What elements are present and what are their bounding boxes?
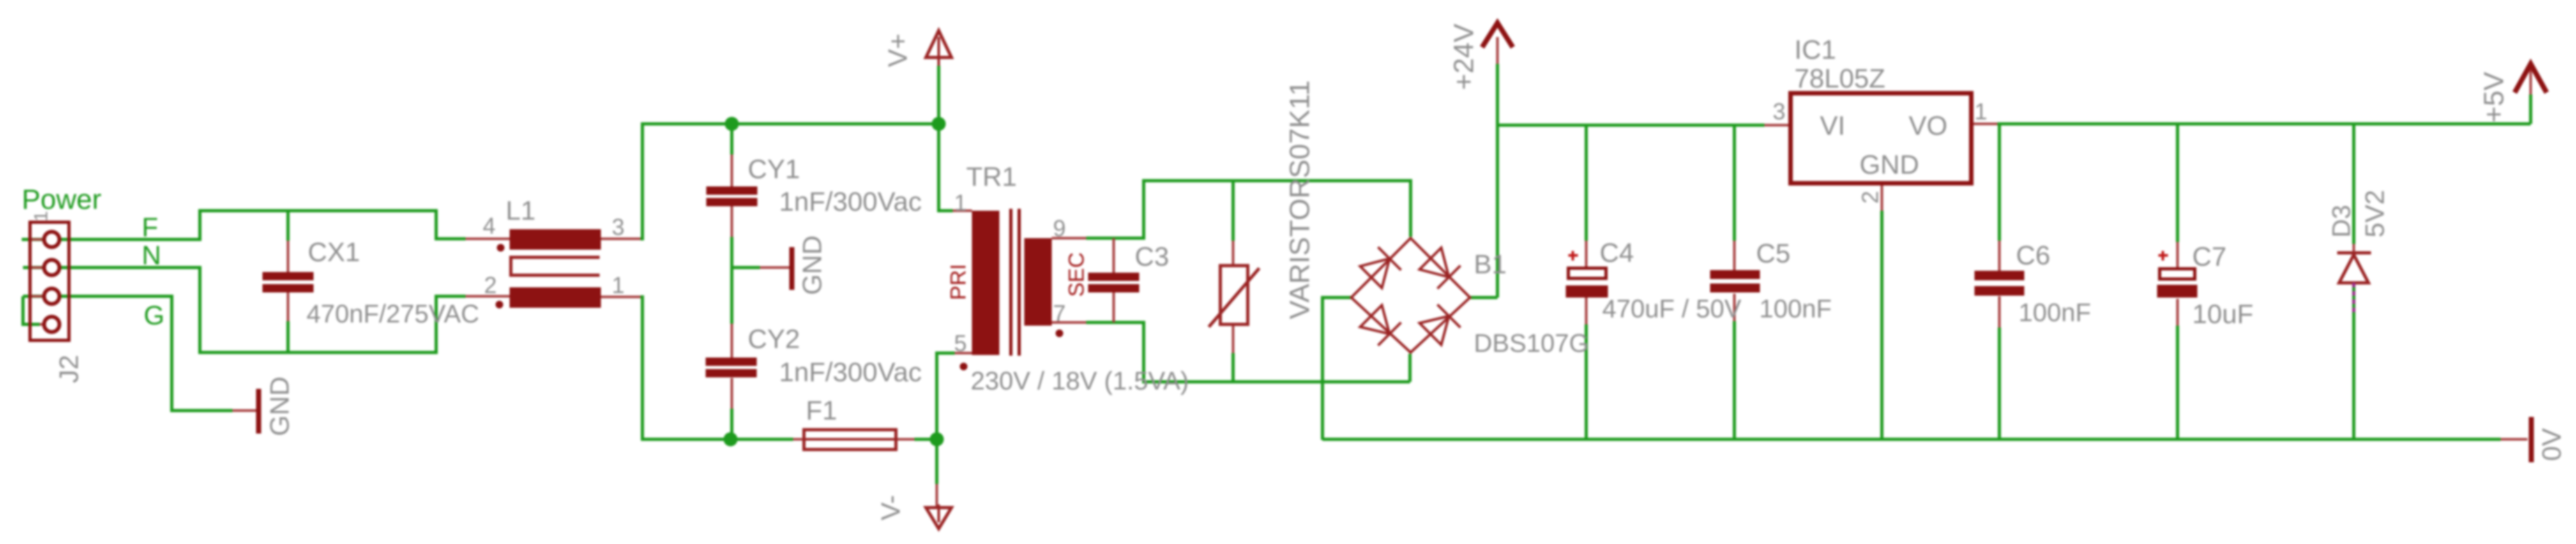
svg-text:CX1: CX1	[308, 237, 360, 267]
svg-text:F: F	[142, 212, 158, 242]
svg-text:CY1: CY1	[748, 154, 800, 184]
svg-text:3: 3	[1773, 98, 1785, 125]
svg-text:C6: C6	[2016, 240, 2050, 270]
svg-text:C7: C7	[2192, 241, 2227, 271]
svg-text:V+: V+	[883, 33, 913, 67]
svg-text:1: 1	[954, 190, 967, 216]
svg-text:F1: F1	[806, 395, 837, 425]
svg-text:0V: 0V	[2536, 428, 2566, 461]
svg-text:5: 5	[954, 330, 967, 356]
svg-text:1nF/300Vac: 1nF/300Vac	[779, 186, 921, 216]
svg-text:N: N	[142, 240, 161, 270]
svg-text:470uF / 50V: 470uF / 50V	[1602, 295, 1741, 323]
svg-text:GND: GND	[264, 377, 294, 436]
svg-text:10uF: 10uF	[2192, 299, 2254, 329]
svg-text:C4: C4	[1600, 238, 1634, 268]
svg-text:CY2: CY2	[748, 324, 800, 354]
svg-text:1: 1	[31, 211, 52, 222]
svg-text:1: 1	[1974, 98, 1987, 125]
svg-text:DBS107G: DBS107G	[1474, 329, 1589, 358]
svg-text:VI: VI	[1820, 110, 1845, 140]
svg-text:5V2: 5V2	[2360, 190, 2390, 238]
svg-text:100nF: 100nF	[2019, 299, 2091, 327]
svg-text:78L05Z: 78L05Z	[1794, 63, 1885, 93]
svg-text:C3: C3	[1135, 241, 1169, 271]
svg-text:GND: GND	[797, 236, 827, 295]
svg-text:VARISTORS07K11: VARISTORS07K11	[1284, 80, 1315, 319]
svg-text:7: 7	[1053, 300, 1066, 326]
svg-text:9: 9	[1053, 215, 1066, 241]
svg-text:VO: VO	[1909, 110, 1948, 140]
svg-text:B1: B1	[1474, 249, 1506, 279]
svg-text:1: 1	[612, 272, 625, 298]
svg-text:230V / 18V (1.5VA): 230V / 18V (1.5VA)	[971, 367, 1189, 395]
svg-text:TR1: TR1	[966, 162, 1017, 192]
svg-text:G: G	[144, 300, 165, 330]
svg-text:C5: C5	[1756, 238, 1791, 268]
svg-text:+24V: +24V	[1448, 23, 1480, 90]
svg-text:L1: L1	[506, 195, 536, 225]
svg-text:470nF/275VAC: 470nF/275VAC	[307, 300, 480, 328]
svg-text:3: 3	[612, 214, 625, 240]
svg-text:100nF: 100nF	[1759, 295, 1831, 323]
svg-text:2: 2	[1857, 191, 1883, 204]
svg-text:V-: V-	[875, 495, 905, 520]
svg-text:2: 2	[484, 272, 497, 298]
svg-text:D3: D3	[2328, 205, 2356, 238]
svg-text:GND: GND	[1860, 149, 1919, 179]
svg-text:Power: Power	[22, 184, 102, 215]
svg-text:4: 4	[483, 213, 496, 239]
svg-text:1nF/300Vac: 1nF/300Vac	[779, 357, 921, 387]
svg-text:+5V: +5V	[2478, 72, 2510, 123]
svg-text:PRI: PRI	[946, 264, 971, 300]
svg-text:J2: J2	[54, 355, 84, 383]
svg-text:IC1: IC1	[1794, 34, 1836, 64]
svg-text:SEC: SEC	[1064, 252, 1089, 297]
